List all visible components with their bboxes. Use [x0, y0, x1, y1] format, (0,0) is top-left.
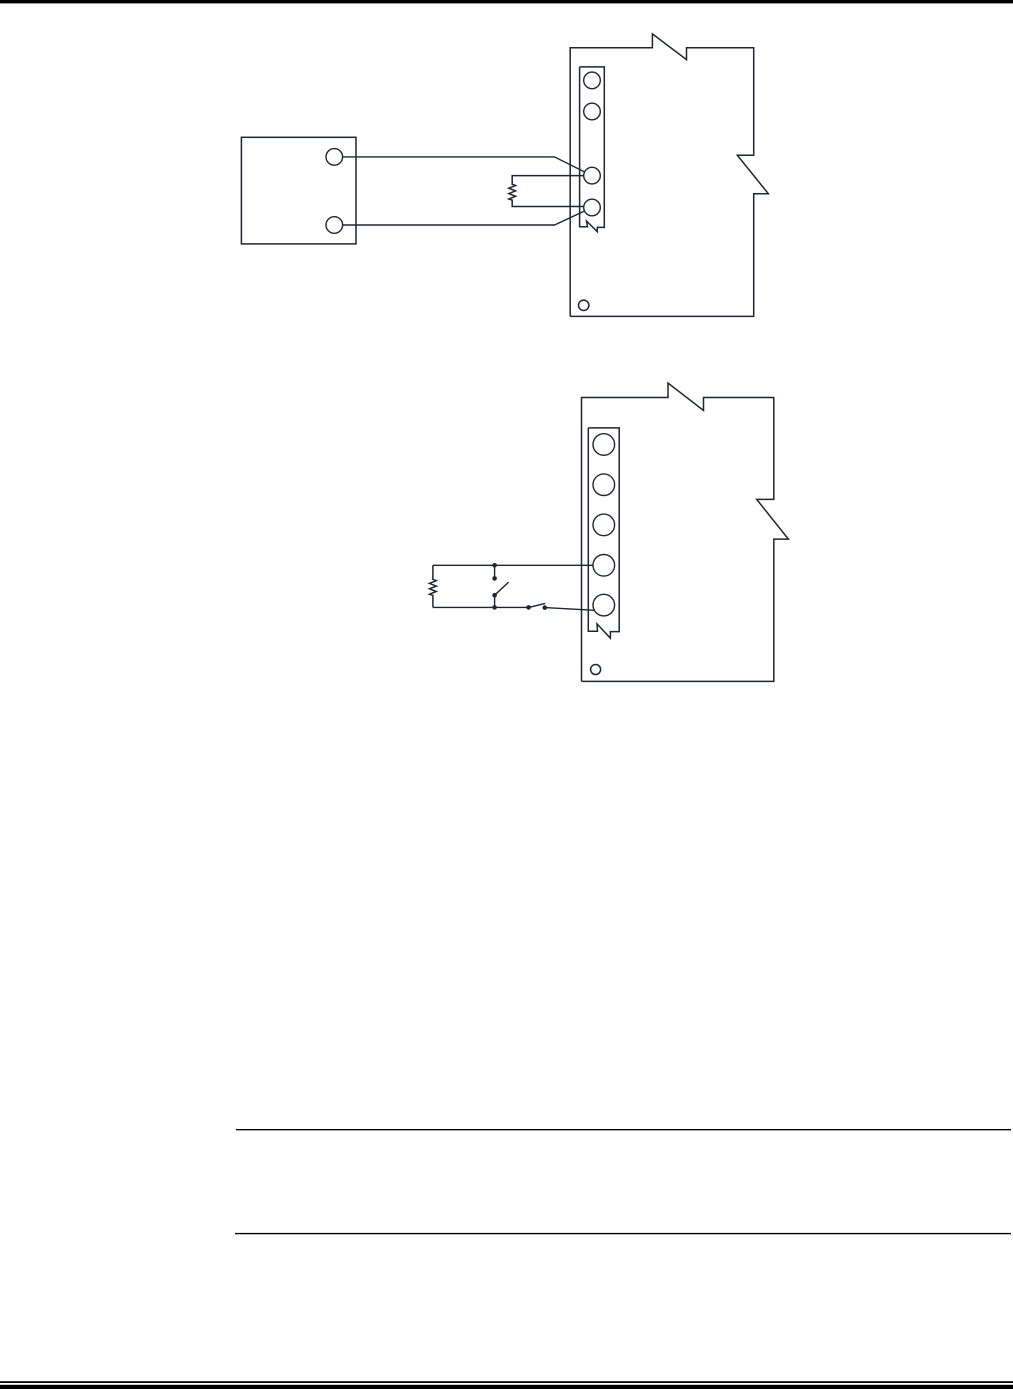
wire: switch S2 to panel terminal 5 (diagram 2) — [545, 608, 597, 611]
mounting hole (diagram 2 panel) — [591, 665, 601, 675]
terminal strip outline (diagram 2, with break at bottom) — [588, 428, 619, 638]
panel terminal 5 (diagram 2) — [593, 594, 615, 616]
control panel outline (diagram 2, with break symbols) — [582, 383, 789, 681]
contact dot: S2 left contact — [526, 605, 531, 610]
resistor R2 (end-of-line resistor, diagram 2) — [430, 565, 437, 607]
junction dot: top wire / S1 — [492, 563, 497, 568]
section rule 1 — [236, 1129, 1011, 1130]
resistor R1 (EOL resistor across terminals 3 and 4) — [509, 176, 592, 207]
contact dot: S1 pivot — [492, 593, 497, 598]
junction dot: bottom wire / S1 — [492, 605, 497, 610]
page top rule — [0, 0, 1013, 3]
terminal strip outline (diagram 1, with break at bottom) — [580, 67, 605, 232]
wire: resistor bottom to switch S2 (diagram 2) — [433, 606, 529, 608]
contact dot: S1 upper contact — [492, 576, 497, 581]
switch S2 blade — [529, 603, 545, 607]
wire: thermostat terminal A to panel terminal 3 — [334, 157, 592, 176]
section rule 2 — [235, 1233, 1011, 1234]
panel terminal 2 (diagram 2) — [593, 474, 615, 496]
switch S1 stem from top wire — [494, 565, 496, 578]
thermostat box (diagram 1 left device) — [241, 137, 356, 244]
wire: thermostat terminal B to panel terminal 4 — [334, 208, 592, 226]
wire: resistor top to panel terminal 4 (diagram 2) — [433, 564, 604, 566]
mounting hole (diagram 1 panel) — [579, 300, 589, 310]
footer thick rule — [0, 1385, 1013, 1389]
switch S1 blade — [495, 582, 509, 595]
switch S1 lower stem to bottom wire — [494, 595, 496, 607]
panel terminal 3 (diagram 2) — [593, 514, 615, 536]
panel terminal 4 — [584, 199, 601, 216]
panel terminal 3 — [584, 167, 601, 184]
panel terminal 4 (diagram 2) — [593, 555, 615, 577]
panel terminal 1 (diagram 2) — [593, 434, 615, 456]
control panel outline (diagram 1, with break symbols) — [570, 34, 768, 317]
thermostat terminal B — [326, 217, 343, 234]
contact dot: S2 right contact — [543, 605, 548, 610]
panel terminal 1 — [584, 72, 601, 89]
footer thin rule — [0, 1381, 1013, 1383]
thermostat terminal A — [326, 149, 343, 166]
panel terminal 2 — [584, 103, 601, 120]
